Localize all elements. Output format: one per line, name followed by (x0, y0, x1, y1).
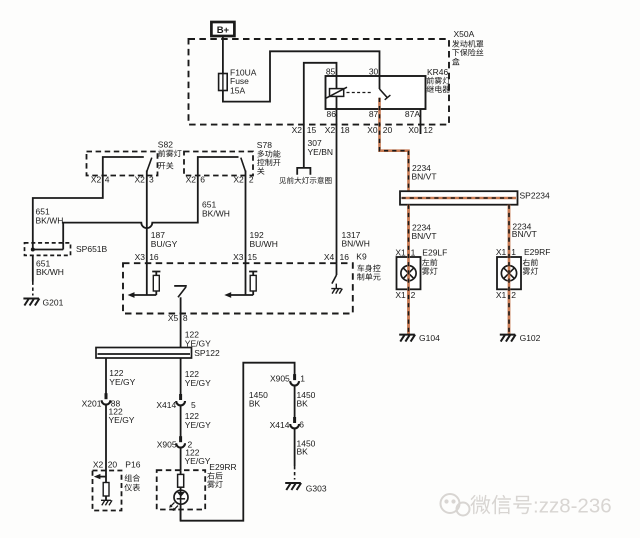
svg-text:BN/VT: BN/VT (412, 231, 437, 241)
connector label X2 6 (186, 175, 206, 185)
switch S78 label (257, 140, 281, 175)
P16 indicator input arrow (94, 471, 106, 483)
svg-text:2: 2 (511, 290, 516, 300)
svg-text:BU/GY: BU/GY (151, 239, 178, 249)
svg-text:6: 6 (299, 420, 304, 430)
svg-text:30: 30 (369, 67, 379, 77)
connector X905 pin 2 (157, 436, 193, 449)
connector label X5 8 (168, 313, 188, 323)
svg-text:G303: G303 (306, 483, 327, 493)
wire 651 BK/WH label right (202, 199, 230, 218)
svg-text:X1: X1 (395, 247, 406, 257)
connector X905 pin 1 (270, 373, 305, 385)
svg-text:X3: X3 (135, 252, 146, 262)
wire 2234 BN/VT to right front fog (orange) (509, 205, 537, 335)
wire 122 YE/GY to cluster (106, 358, 136, 395)
svg-text:1: 1 (411, 247, 416, 257)
BCM input X3-16 (pull-up and sense arrow) (128, 272, 161, 298)
svg-text:X201: X201 (82, 399, 102, 409)
connector X414 pin 5 (156, 394, 196, 410)
wire 2234 BN/VT to left front fog (orange) (409, 205, 437, 335)
relay KR46 label (427, 67, 451, 93)
svg-text:E29RR: E29RR (209, 462, 236, 472)
wire 122 YE/GY from X5-8 (181, 314, 212, 349)
svg-text:BN/VT: BN/VT (512, 229, 537, 239)
switch S78 contact (198, 157, 246, 176)
relay KR46 body (326, 76, 426, 109)
rear fog lamp E29RR boundary (dashed) (157, 470, 206, 509)
relay coil (326, 76, 347, 109)
svg-text:BN/WH: BN/WH (342, 238, 370, 248)
connector label X2 4 (91, 175, 110, 185)
svg-text:Fuse: Fuse (230, 76, 249, 86)
svg-text:X5: X5 (168, 313, 179, 323)
wire 122 YE/GY below X201 (106, 405, 135, 471)
relay pin 87A stub (420, 109, 422, 134)
svg-text:X2: X2 (233, 175, 244, 185)
svg-text:S78: S78 (257, 140, 272, 150)
ground G303 (285, 483, 327, 493)
wire 122 YE/GY into lamp (181, 448, 211, 471)
splice SP2234 (400, 190, 550, 204)
svg-text:P16: P16 (125, 459, 140, 469)
ground G201 (23, 297, 63, 307)
svg-text:X1: X1 (395, 290, 406, 300)
wire 122 YE/GY to rear fog lamp (181, 358, 212, 395)
connector label X0 20 (367, 125, 392, 135)
svg-text:6: 6 (200, 175, 205, 185)
fuse box X50A boundary (dashed) (189, 39, 450, 125)
svg-text:B+: B+ (217, 25, 230, 36)
BCM rear fog output driver switch (174, 286, 187, 314)
svg-text:E29LF: E29LF (422, 247, 447, 257)
off-page connector to headlamp diagram (279, 168, 331, 184)
svg-text:87: 87 (369, 109, 379, 119)
svg-text:18: 18 (340, 125, 350, 135)
splice SP651B (25, 243, 108, 256)
svg-text:SP122: SP122 (194, 348, 220, 358)
wire 192 BU/WH (X2-2 to X3-15) (246, 171, 278, 296)
svg-text:5: 5 (191, 400, 196, 410)
svg-text:X50A: X50A (454, 29, 475, 39)
connector label X0 12 (408, 125, 433, 135)
svg-text:2: 2 (411, 290, 416, 300)
switch S82 label (158, 140, 182, 170)
E29RR lamp element (169, 470, 188, 521)
connector label X1 1 right (496, 247, 516, 257)
svg-text:X905: X905 (157, 439, 177, 449)
fuse F10UA 15A (219, 67, 257, 95)
connector label X2 18 (325, 125, 350, 135)
svg-text::zz8-236: :zz8-236 (533, 495, 612, 518)
wire 1450 BK below X905 (295, 386, 316, 418)
svg-text:SP651B: SP651B (76, 244, 108, 254)
svg-text:12: 12 (423, 125, 433, 135)
svg-text:BK/WH: BK/WH (36, 267, 64, 277)
wire 651 BK/WH from X2-4 (33, 176, 103, 243)
svg-text:X1: X1 (496, 290, 507, 300)
svg-text:BK/WH: BK/WH (202, 208, 230, 218)
P16 indicator resistor (103, 483, 109, 497)
wire fuse to relay pin 30 (223, 51, 380, 101)
svg-text:S82: S82 (158, 140, 173, 150)
svg-text:YE/BN: YE/BN (308, 147, 334, 157)
connector label X3 16 (135, 252, 159, 262)
wire 122 YE/GY below X414 (181, 405, 212, 437)
svg-text:G104: G104 (419, 333, 440, 343)
BCM relay ground switch at X4-16 (331, 263, 342, 293)
svg-text:X414: X414 (156, 400, 176, 410)
svg-text:85: 85 (326, 67, 336, 77)
svg-text:15: 15 (307, 125, 317, 135)
wire B+ to fuse (222, 36, 224, 74)
wire 651 BK/WH to G201 (33, 255, 64, 295)
svg-text:BK: BK (297, 447, 309, 457)
svg-text:X2: X2 (325, 125, 336, 135)
svg-text:X2: X2 (292, 125, 303, 135)
svg-text:X2: X2 (91, 175, 102, 185)
svg-text:X905: X905 (270, 373, 290, 383)
instrument cluster P16 boundary (dashed) (93, 471, 122, 511)
svg-text:X2: X2 (93, 459, 104, 469)
relay contact 30-87 (380, 76, 391, 100)
wire 187 BU/GY (X2-3 to X3-16) (147, 171, 178, 296)
svg-text:E29RF: E29RF (524, 247, 550, 257)
right front fog lamp E29RF (497, 247, 550, 289)
battery feed terminal B+ (211, 22, 234, 36)
connector label X1 2 left (395, 290, 415, 300)
svg-text:YE/GY: YE/GY (109, 377, 135, 387)
svg-text:8: 8 (183, 313, 188, 323)
svg-text:16: 16 (149, 252, 159, 262)
connector label X2 2 (233, 175, 254, 185)
svg-text:1: 1 (511, 247, 516, 257)
connector X201 pin 88 (82, 393, 121, 408)
wire 651 BK/WH label left (36, 207, 64, 226)
wire 307 YE/BN label (308, 138, 334, 157)
connector X414 pin 6 (270, 417, 305, 430)
svg-text:YE/GY: YE/GY (109, 415, 135, 425)
svg-text:X1: X1 (496, 247, 507, 257)
svg-text:G102: G102 (520, 333, 541, 343)
svg-text:15: 15 (248, 252, 258, 262)
connector label X4 16 (324, 252, 349, 262)
svg-text:X4: X4 (324, 252, 335, 262)
relay pin labels (326, 67, 420, 120)
connector label X2 3 (134, 175, 154, 185)
svg-text:KR46: KR46 (427, 67, 449, 77)
connector label X3 15 (233, 252, 257, 262)
svg-text:G201: G201 (43, 297, 64, 307)
svg-text:BK: BK (249, 399, 261, 409)
fuse box X50A label (452, 29, 483, 65)
svg-text:4: 4 (105, 175, 110, 185)
svg-text:X414: X414 (270, 420, 290, 430)
svg-text:87A: 87A (405, 109, 420, 119)
relay actuation dashed link (347, 92, 372, 94)
svg-text:X3: X3 (233, 252, 244, 262)
svg-text:BU/WH: BU/WH (250, 239, 278, 249)
connector label X2 15 (292, 125, 317, 135)
svg-text:YE/GY: YE/GY (185, 456, 211, 466)
ground G104 (399, 333, 440, 343)
svg-text:YE/GY: YE/GY (185, 420, 211, 430)
svg-text:1: 1 (300, 373, 305, 383)
svg-text:SP2234: SP2234 (520, 190, 551, 200)
svg-text:X2: X2 (186, 175, 197, 185)
ground G102 (500, 333, 541, 343)
wire 1450 BK to G303 (295, 428, 316, 479)
connector label X2 20 and P16 (93, 459, 141, 469)
body control module K9 label (356, 251, 380, 280)
svg-text:20: 20 (108, 459, 118, 469)
switch S82 boundary (dashed) (87, 152, 158, 176)
wire 2234 BN/VT from relay 87 (orange) (380, 98, 437, 191)
svg-text:20: 20 (383, 125, 393, 135)
left front fog lamp E29LF (397, 247, 448, 289)
svg-text:86: 86 (327, 109, 337, 119)
svg-text:X2: X2 (134, 175, 145, 185)
svg-text:15A: 15A (230, 85, 245, 95)
svg-text:X0: X0 (367, 125, 378, 135)
svg-text:YE/GY: YE/GY (185, 378, 211, 388)
BCM input X3-15 (pull-up and sense arrow) (224, 272, 257, 298)
svg-text:BN/VT: BN/VT (412, 171, 437, 181)
switch S78 boundary (dashed) (184, 152, 253, 176)
splice SP122 (96, 348, 220, 359)
svg-text:3: 3 (149, 175, 154, 185)
wire 1317 BN/WH (relay 86 to X4-16) (337, 109, 370, 263)
svg-text:16: 16 (340, 252, 350, 262)
connector label X1 2 right (496, 290, 516, 300)
svg-text:2: 2 (249, 175, 254, 185)
svg-text:BK/WH: BK/WH (36, 216, 64, 226)
connector label X1 1 left (395, 247, 415, 257)
body control module K9 boundary (dashed) (123, 263, 353, 313)
svg-text:BK: BK (297, 399, 309, 409)
rear fog lamp E29RR label (207, 462, 237, 488)
P16 internal ground (101, 496, 112, 505)
switch S82 contact (103, 157, 152, 176)
instrument cluster P16 label (124, 474, 140, 491)
wire 1450 BK from lamp (up and over) (181, 363, 295, 521)
watermark (441, 494, 612, 518)
wire 651 BK/WH from X2-6 (hops over 187) (63, 176, 198, 243)
svg-text:X0: X0 (408, 125, 419, 135)
orange wires dash overlay (409, 205, 510, 335)
wire X2-15 to relay pin 85 (307 YE/BN feed) (304, 63, 337, 167)
svg-text:K9: K9 (356, 251, 367, 261)
